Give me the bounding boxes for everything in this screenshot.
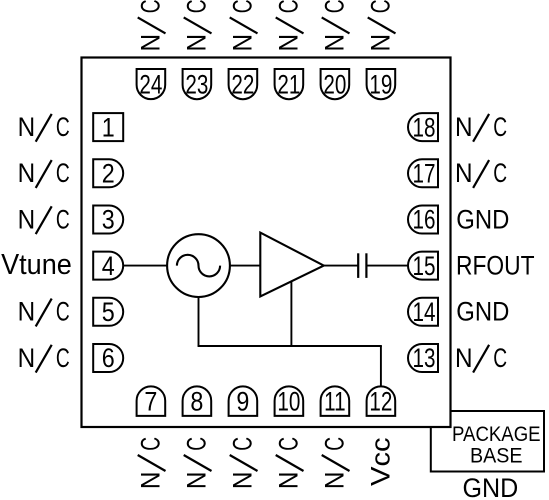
pin 21	[275, 69, 304, 99]
label Vcc (pin 12)	[366, 437, 396, 486]
package base plate (behind package)	[431, 411, 544, 472]
svg-text:N: N	[455, 113, 473, 142]
svg-text:C: C	[135, 0, 165, 13]
pin 24	[137, 69, 166, 99]
svg-text:9: 9	[236, 387, 249, 417]
svg-text:15: 15	[413, 251, 436, 281]
pin 3	[93, 206, 123, 234]
svg-text:N: N	[455, 344, 473, 373]
svg-text:C: C	[493, 343, 507, 373]
wire: Vcc bus horizontal	[198, 345, 382, 347]
svg-text:C: C	[273, 0, 303, 13]
pin 5	[93, 298, 123, 326]
svg-text:6: 6	[102, 344, 115, 374]
svg-text:N: N	[229, 472, 258, 490]
svg-text:C: C	[56, 158, 70, 188]
svg-text:17: 17	[413, 159, 436, 189]
pin 11	[321, 386, 350, 415]
pin 6	[93, 344, 123, 372]
pin 7	[137, 386, 166, 415]
wire: Vcc bus down to pin12	[380, 346, 382, 387]
svg-text:C: C	[56, 204, 70, 234]
svg-text:C: C	[56, 343, 70, 373]
svg-text:N: N	[18, 205, 36, 234]
label N/C (pin 21)	[273, 0, 304, 51]
pin 9	[229, 386, 258, 415]
label N/C (pin 17)	[455, 158, 507, 189]
svg-text:7: 7	[144, 387, 157, 417]
svg-text:18: 18	[413, 113, 436, 143]
svg-text:BASE: BASE	[470, 444, 522, 468]
wire: pin4 Vtune to oscillator	[122, 265, 168, 267]
pin 8	[183, 386, 212, 416]
svg-text:22: 22	[231, 70, 254, 100]
svg-text:C: C	[273, 437, 303, 451]
svg-text:23: 23	[185, 70, 208, 100]
svg-text:N: N	[183, 472, 212, 490]
svg-text:N: N	[229, 34, 258, 52]
svg-text:2: 2	[102, 159, 115, 189]
svg-text:N: N	[275, 472, 304, 490]
label N/C (pin 19)	[365, 0, 396, 51]
pin 12	[367, 386, 396, 415]
svg-text:20: 20	[323, 70, 346, 100]
svg-text:C: C	[181, 437, 211, 451]
svg-text:3: 3	[102, 205, 115, 235]
svg-text:N: N	[367, 34, 396, 52]
svg-text:5: 5	[102, 298, 115, 328]
label N/C (pin 2)	[18, 158, 70, 189]
pin 19	[367, 69, 396, 99]
pin 4	[93, 252, 123, 280]
svg-text:11: 11	[324, 387, 345, 417]
svg-text:N: N	[18, 159, 36, 188]
svg-text:13: 13	[413, 344, 436, 374]
svg-text:C: C	[56, 112, 70, 142]
svg-text:C: C	[319, 437, 349, 451]
svg-text:N: N	[183, 34, 212, 52]
capacitor (DC block)	[357, 253, 359, 278]
svg-text:C: C	[365, 0, 395, 13]
pin 17	[408, 159, 438, 187]
pin 1	[93, 113, 123, 141]
svg-text:C: C	[227, 437, 257, 451]
label N/C (pin 23)	[181, 0, 212, 51]
svg-text:C: C	[319, 0, 349, 13]
label N/C (pin 8)	[181, 437, 212, 489]
svg-text:16: 16	[413, 205, 436, 235]
svg-text:Vtune: Vtune	[1, 249, 72, 281]
pin 18	[408, 113, 438, 141]
pin 22	[229, 69, 258, 99]
wire: amplifier output to capacitor	[323, 265, 358, 267]
wire: oscillator bottom down to Vcc bus	[198, 296, 200, 346]
svg-text:8: 8	[190, 387, 203, 417]
label N/C (pin 10)	[273, 437, 304, 489]
svg-text:C: C	[135, 437, 165, 451]
svg-text:GND: GND	[456, 205, 509, 235]
label N/C (pin 22)	[227, 0, 258, 51]
svg-text:N: N	[137, 472, 166, 490]
pin 20	[321, 69, 350, 99]
label N/C (pin 3)	[18, 204, 70, 235]
svg-text:14: 14	[413, 298, 436, 328]
svg-text:N: N	[137, 34, 166, 52]
amplifier (buffer)	[260, 233, 324, 297]
svg-text:N: N	[18, 113, 36, 142]
svg-text:21: 21	[277, 70, 300, 100]
svg-text:C: C	[56, 296, 70, 326]
pin 23	[183, 69, 212, 99]
wire: oscillator to amplifier	[229, 265, 260, 267]
svg-text:RFOUT: RFOUT	[456, 251, 535, 281]
svg-text:GND: GND	[456, 297, 509, 327]
svg-text:N: N	[18, 344, 36, 373]
label N/C (pin 9)	[227, 437, 258, 489]
svg-text:24: 24	[139, 70, 162, 100]
svg-text:12: 12	[369, 387, 392, 417]
label N/C (pin 1)	[18, 112, 70, 143]
package outline U1	[82, 58, 451, 428]
svg-text:4: 4	[102, 251, 115, 281]
pin 10	[275, 386, 304, 415]
pin 14	[408, 298, 438, 326]
label N/C (pin 7)	[135, 437, 166, 489]
svg-text:N: N	[275, 34, 304, 52]
label N/C (pin 18)	[455, 112, 507, 143]
pin 16	[408, 206, 438, 234]
svg-text:N: N	[321, 472, 350, 490]
svg-text:Vcc: Vcc	[366, 437, 396, 486]
svg-text:N: N	[18, 297, 36, 326]
pin 13	[408, 344, 438, 372]
wire: capacitor to pin15 RFOUT	[366, 265, 410, 267]
svg-text:C: C	[493, 112, 507, 142]
svg-text:10: 10	[277, 387, 300, 417]
label N/C (pin 11)	[319, 437, 350, 489]
svg-text:C: C	[181, 0, 211, 13]
label N/C (pin 5)	[18, 296, 70, 327]
pin 15	[408, 252, 438, 280]
svg-text:N: N	[455, 159, 473, 188]
label N/C (pin 24)	[135, 0, 166, 51]
svg-text:C: C	[493, 158, 507, 188]
oscillator symbol (VCO)	[167, 234, 230, 297]
pin 2	[93, 159, 123, 187]
svg-text:N: N	[321, 34, 350, 52]
label N/C (pin 13)	[455, 343, 507, 374]
label N/C (pin 20)	[319, 0, 350, 51]
label N/C (pin 6)	[18, 343, 70, 374]
svg-text:19: 19	[369, 70, 392, 100]
svg-text:GND: GND	[463, 472, 519, 500]
svg-text:1: 1	[102, 113, 115, 143]
wire: amplifier bottom down to Vcc bus	[290, 281, 292, 346]
svg-text:C: C	[227, 0, 257, 13]
